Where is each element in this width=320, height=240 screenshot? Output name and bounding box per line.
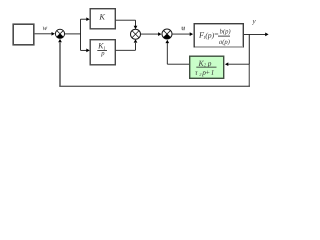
wire tap to block K2 input bbox=[225, 62, 249, 66]
summing junction S1 bbox=[55, 29, 64, 38]
wire outer feedback right corner bbox=[248, 85, 250, 86]
node label y bbox=[252, 20, 256, 25]
wire S2 to summing junction S3 bbox=[141, 32, 162, 36]
wire outer feedback up to S1 bbox=[58, 39, 62, 86]
wire outer feedback bottom bbox=[59, 85, 250, 87]
wire K2 output to S3 bbox=[165, 40, 189, 64]
block K2 derivative feedback K2p/(t2p+1) (green) bbox=[190, 56, 224, 78]
summing junction S3 bbox=[162, 29, 172, 39]
node label u bbox=[182, 27, 185, 31]
wire K output to summing junction S2 bbox=[116, 20, 138, 29]
input source block bbox=[13, 24, 34, 45]
wire feedback tap vertical from output node bbox=[248, 34, 250, 85]
wire S1 to branch point bbox=[65, 33, 81, 35]
node label w bbox=[43, 27, 47, 30]
wire S3 to block F1 bbox=[173, 32, 194, 36]
wire F1 output y bbox=[244, 33, 269, 37]
wire branch to block K bbox=[81, 17, 90, 21]
block K1/p (integrator) bbox=[90, 40, 115, 65]
wire branch to block K1/p bbox=[81, 49, 90, 53]
block K (proportional gain) bbox=[90, 9, 115, 29]
summing junction S2 bbox=[131, 29, 141, 39]
wire K1/p output to summing junction S2 bbox=[116, 39, 138, 50]
wire w: source to summing junction S1 bbox=[35, 32, 55, 36]
block F1 plant F1(p)=b(p)/a(p) bbox=[194, 24, 243, 47]
wire branch vertical bbox=[80, 19, 82, 50]
